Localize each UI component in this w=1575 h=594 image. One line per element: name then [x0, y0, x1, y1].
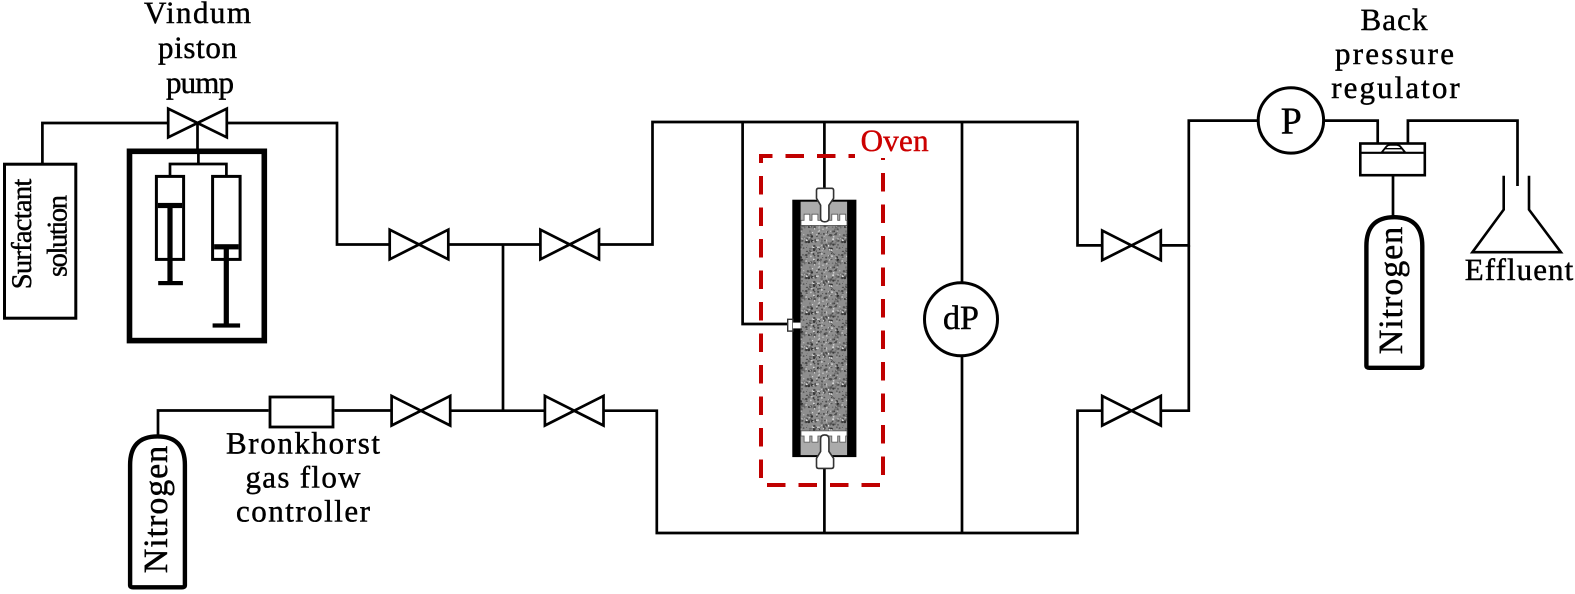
svg-text:solution: solution [42, 195, 73, 277]
svg-text:Vindum: Vindum [144, 0, 251, 30]
svg-text:pressure: pressure [1335, 36, 1454, 71]
svg-text:dP: dP [943, 300, 979, 337]
svg-text:Effluent: Effluent [1465, 252, 1574, 287]
svg-text:Back: Back [1361, 2, 1429, 37]
svg-text:Nitrogen: Nitrogen [138, 446, 175, 573]
svg-text:pump: pump [166, 65, 234, 100]
svg-text:Bronkhorst: Bronkhorst [226, 426, 380, 461]
svg-text:gas flow: gas flow [246, 460, 362, 495]
svg-text:Oven: Oven [861, 123, 930, 158]
svg-text:Surfactant: Surfactant [7, 179, 38, 290]
svg-text:Nitrogen: Nitrogen [1373, 227, 1410, 354]
svg-text:piston: piston [158, 30, 238, 65]
svg-text:controller: controller [236, 494, 371, 529]
svg-text:regulator: regulator [1331, 70, 1460, 105]
svg-text:P: P [1281, 101, 1302, 143]
